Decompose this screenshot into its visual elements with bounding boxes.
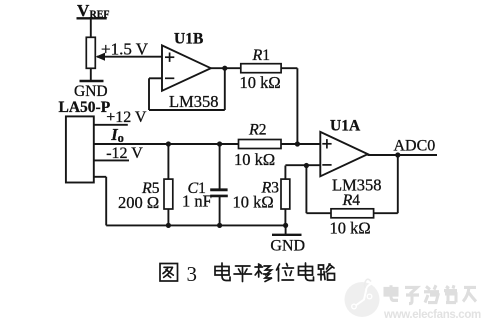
svg-text:R1: R1 <box>252 47 271 64</box>
svg-text:LA50-P: LA50-P <box>59 99 111 116</box>
svg-text:V: V <box>77 1 90 20</box>
svg-text:REF: REF <box>90 9 110 20</box>
svg-text:U1B: U1B <box>174 31 203 48</box>
svg-text:10 kΩ: 10 kΩ <box>240 73 281 92</box>
svg-text:LM358: LM358 <box>169 92 219 111</box>
svg-text:o: o <box>118 131 124 145</box>
svg-text:+1.5 V: +1.5 V <box>101 40 149 59</box>
svg-text:GND: GND <box>270 237 305 254</box>
svg-text:GND: GND <box>74 83 108 100</box>
svg-text:10 kΩ: 10 kΩ <box>330 219 371 238</box>
svg-text:R4: R4 <box>342 192 361 209</box>
svg-text:U1A: U1A <box>330 118 361 135</box>
svg-text:10 kΩ: 10 kΩ <box>234 150 275 169</box>
svg-text:R2: R2 <box>248 122 267 139</box>
svg-text:www.elecfans.com: www.elecfans.com <box>383 309 481 321</box>
svg-text:200 Ω: 200 Ω <box>118 193 159 212</box>
svg-text:3: 3 <box>187 262 198 286</box>
svg-text:-12 V: -12 V <box>106 145 143 162</box>
svg-text:+12 V: +12 V <box>106 109 147 126</box>
svg-text:1 nF: 1 nF <box>182 192 212 211</box>
svg-text:10 kΩ: 10 kΩ <box>233 193 274 212</box>
svg-text:ADC0: ADC0 <box>394 138 436 155</box>
